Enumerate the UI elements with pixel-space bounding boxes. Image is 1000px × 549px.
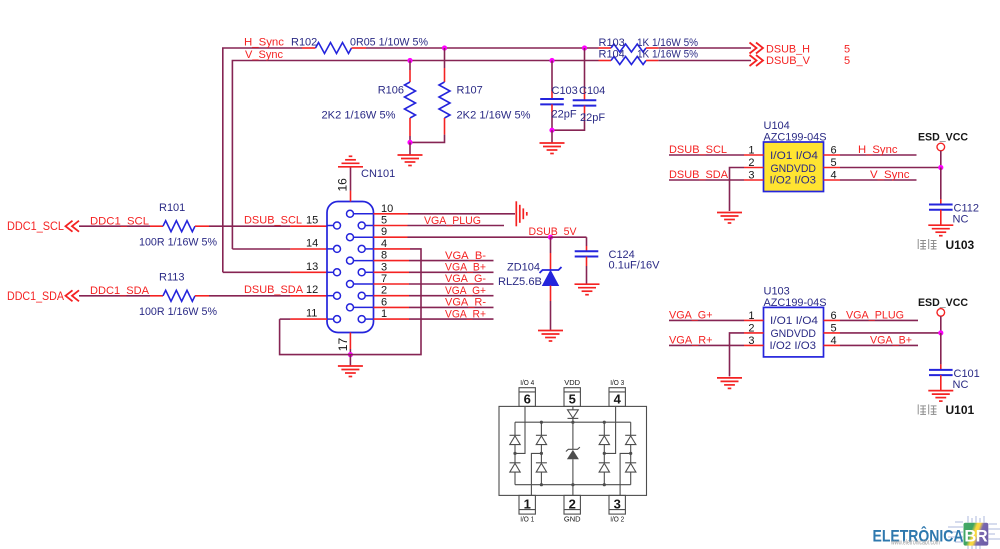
wire ESD_VCC to C112	[940, 168, 942, 200]
wire U103 pin3 VGA_R+	[669, 344, 744, 346]
package pin4 internal wire	[604, 406, 615, 453]
svg-text:DDC1_SDA: DDC1_SDA	[7, 291, 64, 303]
svg-text:DSUB_SDA: DSUB_SDA	[669, 169, 729, 181]
ground C101	[928, 391, 953, 402]
wire U103 pin4 VGA_B+	[824, 344, 841, 346]
svg-text:2: 2	[748, 157, 754, 169]
svg-text:4: 4	[381, 238, 387, 250]
resistor R104	[599, 60, 612, 62]
svg-text:U103: U103	[764, 285, 790, 297]
svg-text:9: 9	[381, 226, 387, 238]
capacitor C112	[929, 204, 953, 206]
resistor R113	[150, 295, 163, 297]
svg-text:R107: R107	[457, 85, 483, 97]
svg-text:2: 2	[748, 322, 754, 334]
wire H_Sync bus to pin13	[223, 271, 291, 273]
svg-text:5: 5	[844, 43, 850, 55]
svg-text:2: 2	[569, 496, 576, 511]
svg-text:0R05 1/10W 5%: 0R05 1/10W 5%	[350, 37, 428, 49]
svg-text:VGA_G-: VGA_G-	[445, 273, 486, 285]
pin 17 stub	[349, 333, 351, 350]
package zener diode	[572, 422, 574, 449]
ground C124	[575, 284, 600, 295]
svg-text:8: 8	[381, 250, 387, 262]
svg-text:VGA_B+: VGA_B+	[445, 262, 486, 274]
svg-text:6: 6	[381, 296, 387, 308]
ground C112	[928, 225, 953, 236]
wire pin5 VGA_PLUG	[374, 225, 408, 227]
wire pin6 VGA_R-	[374, 306, 410, 308]
svg-text:100R 1/16W 5%: 100R 1/16W 5%	[139, 237, 217, 249]
svg-text:6: 6	[831, 145, 837, 157]
svg-text:DSUB_SCL: DSUB_SCL	[669, 144, 727, 156]
svg-text:I/O1 I/O4: I/O1 I/O4	[770, 315, 818, 327]
svg-text:V_Sync: V_Sync	[245, 49, 283, 61]
svg-text:R103: R103	[599, 37, 625, 49]
svg-text:CN101: CN101	[361, 168, 395, 180]
package VDD diode	[572, 406, 574, 409]
capacitor C124	[586, 246, 588, 251]
package pin6 internal wire	[515, 406, 525, 453]
svg-text:GND: GND	[564, 515, 581, 524]
svg-text:1: 1	[381, 308, 387, 320]
ground C103/C104	[540, 143, 565, 154]
package steering diode chain 2	[540, 422, 542, 435]
svg-text:RLZ5.6B: RLZ5.6B	[498, 276, 542, 288]
wire H_Sync net horizontal+left bus	[223, 48, 302, 272]
package steering diode chain 3	[603, 422, 605, 435]
port DDC1_SCL	[66, 221, 80, 232]
wire U104 pin1 DSUB_SCL	[669, 154, 744, 156]
connector CN101 body	[327, 202, 374, 333]
wire ground loop pin11-pin17-pin4	[280, 249, 421, 355]
logo ELETRONICA BR	[873, 516, 1000, 549]
ground CN101 shell	[338, 366, 363, 377]
wire pin10 to earth	[374, 213, 409, 215]
svg-text:VGA_PLUG: VGA_PLUG	[846, 310, 904, 322]
wire U104 pin4 V_Sync	[824, 179, 841, 181]
wire caps to ground	[551, 130, 553, 143]
svg-text:VGA_B-: VGA_B-	[445, 250, 486, 262]
wire pin9 DSUB_5V	[374, 236, 408, 238]
junction U104 pin5 / ESD_VCC	[938, 165, 943, 170]
svg-text:VGA_R+: VGA_R+	[669, 335, 713, 347]
svg-text:2K2 1/16W 5%: 2K2 1/16W 5%	[322, 110, 396, 122]
svg-text:6: 6	[831, 310, 837, 322]
junction R106/R107 bottom	[407, 140, 412, 145]
svg-text:AZC199-04S: AZC199-04S	[764, 297, 827, 309]
svg-text:5: 5	[844, 55, 850, 67]
svg-text:DSUB_SDA: DSUB_SDA	[244, 284, 304, 296]
svg-text:I/O2 I/O3: I/O2 I/O3	[770, 175, 817, 187]
svg-text:5: 5	[569, 392, 576, 407]
package GND pin wire	[572, 485, 574, 496]
svg-text:VGA_R+: VGA_R+	[445, 308, 486, 320]
svg-text:GNDVDD: GNDVDD	[771, 328, 817, 340]
label unplaced note (U101)	[918, 404, 936, 414]
wire U103 pin6 VGA_PLUG	[824, 319, 841, 321]
svg-text:2K2 1/16W 5%: 2K2 1/16W 5%	[457, 110, 531, 122]
package rail junction dots	[540, 421, 543, 424]
resistor R101	[150, 225, 163, 227]
svg-text:12: 12	[306, 284, 318, 296]
wire U104 pin2 to ground	[744, 167, 764, 169]
ground pin16 (inverted)	[338, 156, 363, 167]
svg-text:BR: BR	[964, 528, 987, 546]
svg-text:100R 1/16W 5%: 100R 1/16W 5%	[139, 306, 217, 318]
svg-text:3: 3	[614, 496, 621, 511]
wire V_Sync net horizontal+left bus	[232, 61, 598, 250]
svg-text:3: 3	[748, 335, 754, 347]
port DSUB_V	[750, 55, 764, 66]
svg-text:3: 3	[748, 170, 754, 182]
wire U104 pin5 to ESD_VCC	[824, 167, 841, 169]
svg-text:6: 6	[524, 392, 531, 407]
svg-text:5: 5	[381, 215, 387, 227]
junction R106/V_Sync	[407, 58, 412, 63]
svg-text:R102: R102	[291, 37, 317, 49]
svg-text:4: 4	[831, 170, 837, 182]
ground ZD104	[538, 331, 563, 342]
wire DSUB_5V to C124	[551, 236, 587, 238]
svg-text:DDC1_SCL: DDC1_SCL	[90, 216, 149, 228]
svg-text:www.eletronicabr.com: www.eletronicabr.com	[890, 540, 940, 547]
IC U104 body	[764, 142, 824, 192]
ground U104 pin2	[717, 213, 742, 224]
svg-text:DSUB_H: DSUB_H	[766, 43, 810, 55]
wire pin8 VGA_B-	[374, 260, 410, 262]
wire U103 pin1 VGA_G+	[669, 319, 744, 321]
wire DDC1_SCL to R101	[79, 225, 150, 227]
capacitor C103	[551, 61, 553, 92]
svg-text:22pF: 22pF	[552, 109, 577, 121]
svg-text:H_Sync: H_Sync	[858, 144, 898, 156]
svg-text:4: 4	[614, 392, 622, 407]
svg-text:17: 17	[336, 338, 350, 352]
package pin box 2	[564, 495, 580, 514]
svg-text:R106: R106	[378, 85, 404, 97]
svg-text:AZC199-04S: AZC199-04S	[764, 132, 827, 144]
svg-text:ESD_VCC: ESD_VCC	[918, 132, 968, 144]
zener ZD104	[540, 267, 562, 273]
svg-text:16: 16	[336, 178, 350, 192]
svg-text:14: 14	[306, 237, 318, 249]
junction pin17/ground loop	[348, 352, 353, 357]
svg-text:22pF: 22pF	[580, 112, 605, 124]
svg-text:I/O 3: I/O 3	[610, 378, 624, 387]
wire R106 bottom to ground	[409, 142, 411, 155]
resistor R103	[599, 47, 612, 49]
svg-text:VGA_PLUG: VGA_PLUG	[424, 215, 481, 227]
svg-text:10: 10	[381, 203, 393, 215]
svg-text:VGA_G+: VGA_G+	[445, 285, 486, 297]
svg-text:R101: R101	[159, 202, 185, 214]
svg-text:1: 1	[524, 496, 531, 511]
svg-text:1K 1/16W 5%: 1K 1/16W 5%	[637, 37, 698, 49]
svg-text:DSUB_V: DSUB_V	[766, 55, 811, 67]
wire U104 pin3 DSUB_SDA	[669, 179, 744, 181]
svg-text:ZD104: ZD104	[507, 262, 540, 274]
svg-text:2: 2	[381, 285, 387, 297]
svg-text:C104: C104	[579, 85, 605, 97]
ground pin10 (rotated)	[516, 201, 527, 226]
junction C104/H_Sync	[582, 45, 587, 50]
package top rail	[515, 421, 631, 423]
svg-text:I/O2 I/O3: I/O2 I/O3	[770, 340, 817, 352]
IC U103 body	[764, 307, 824, 357]
svg-text:5: 5	[831, 322, 837, 334]
wire pin2 VGA_G+	[374, 295, 410, 297]
package pin box 6	[519, 388, 535, 407]
wire U104 pin6 H_Sync	[824, 154, 841, 156]
package U outline	[499, 406, 647, 495]
svg-text:U103: U103	[946, 238, 975, 252]
wire DSUB_SCL to pin15	[209, 225, 290, 227]
svg-text:7: 7	[381, 273, 387, 285]
ground R106/R107	[398, 155, 423, 166]
pin 16 stub	[350, 191, 352, 202]
resistor R107	[444, 48, 446, 68]
svg-text:VDD: VDD	[564, 378, 580, 387]
junction R107/H_Sync	[442, 45, 447, 50]
svg-text:VGA_G+: VGA_G+	[669, 310, 713, 322]
wire U103 pin5 to ESD_VCC	[824, 332, 841, 334]
connector CN101 pin holes	[327, 210, 374, 322]
svg-text:4: 4	[831, 335, 837, 347]
wire DDC1_SDA to R113	[79, 295, 150, 297]
svg-text:1: 1	[748, 145, 754, 157]
svg-text:13: 13	[306, 261, 318, 273]
svg-text:H_Sync: H_Sync	[244, 37, 285, 49]
junction C103/V_Sync	[549, 58, 554, 63]
package steering diode chain 1	[514, 422, 516, 435]
svg-text:C103: C103	[552, 85, 578, 97]
resistor R102	[302, 47, 316, 49]
ground U103 pin2	[717, 378, 742, 389]
package pin box 5	[564, 388, 580, 407]
capacitor C104	[584, 48, 586, 92]
capacitor C101	[929, 369, 953, 371]
package pin box 3	[609, 495, 625, 514]
svg-text:I/O1 I/O4: I/O1 I/O4	[770, 150, 818, 162]
svg-text:3: 3	[381, 261, 387, 273]
svg-text:VGA_R-: VGA_R-	[445, 297, 486, 309]
svg-text:1K 1/16W 5%: 1K 1/16W 5%	[637, 49, 698, 61]
svg-text:V_Sync: V_Sync	[870, 169, 910, 181]
svg-text:U104: U104	[764, 120, 790, 132]
port DSUB_H	[750, 43, 764, 54]
svg-text:I/O 1: I/O 1	[520, 515, 534, 524]
wire pin17 to ground	[349, 355, 351, 366]
junction DSUB_5V node	[548, 235, 553, 240]
wire U103 pin2 to ground	[744, 332, 764, 334]
svg-text:GNDVDD: GNDVDD	[771, 163, 817, 175]
svg-text:R113: R113	[159, 271, 184, 283]
svg-text:5: 5	[831, 157, 837, 169]
svg-text:ESD_VCC: ESD_VCC	[918, 297, 968, 309]
package pin box 4	[609, 388, 625, 407]
wire DSUB_SDA to pin12	[209, 295, 290, 297]
svg-text:I/O 2: I/O 2	[610, 515, 624, 524]
port DDC1_SDA	[66, 290, 80, 301]
wire pin1 VGA_R+	[374, 318, 410, 320]
package steering diode chain 4	[630, 422, 632, 435]
svg-text:DDC1_SDA: DDC1_SDA	[90, 285, 150, 297]
package bottom rail	[515, 484, 631, 486]
junction C103/C104 bottom	[549, 128, 554, 133]
svg-text:15: 15	[306, 215, 318, 227]
junction U103 pin5 / ESD_VCC	[938, 330, 943, 335]
svg-text:R104: R104	[599, 49, 625, 61]
svg-text:NC: NC	[953, 379, 969, 391]
label unplaced note (U103)	[918, 239, 936, 249]
wire V_Sync bus to pin14	[232, 248, 290, 250]
svg-text:I/O 4: I/O 4	[520, 378, 534, 387]
wire pin7 VGA_G-	[374, 283, 410, 285]
package pin1 internal wire	[531, 453, 541, 495]
svg-text:DDC1_SCL: DDC1_SCL	[7, 221, 65, 233]
resistor R106	[409, 61, 411, 71]
svg-text:DSUB_SCL: DSUB_SCL	[244, 215, 302, 227]
svg-text:0.1uF/16V: 0.1uF/16V	[609, 260, 661, 272]
svg-text:11: 11	[306, 308, 317, 320]
svg-text:NC: NC	[953, 214, 969, 226]
svg-text:U101: U101	[946, 403, 975, 417]
package pin3 internal wire	[620, 453, 631, 495]
wire DSUB_5V to ZD104	[550, 237, 552, 253]
svg-text:VGA_B+: VGA_B+	[870, 335, 912, 347]
svg-text:1: 1	[748, 310, 754, 322]
wire ESD_VCC to C101	[940, 333, 942, 365]
wire pin3 VGA_B+	[374, 271, 410, 273]
package pin box 1	[519, 495, 535, 514]
wire pin11 left stub	[290, 318, 327, 320]
